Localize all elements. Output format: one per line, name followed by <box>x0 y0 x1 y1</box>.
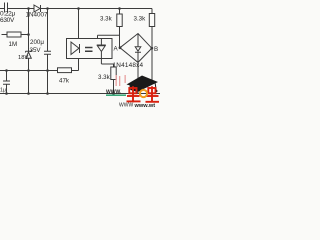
svg-text:3.3k: 3.3k <box>134 16 147 23</box>
svg-text:35V: 35V <box>30 47 42 54</box>
svg-text:WWW: WWW <box>119 103 133 109</box>
svg-text:3.3k: 3.3k <box>98 74 111 81</box>
svg-text:630V: 630V <box>0 17 15 24</box>
svg-text:3.3k: 3.3k <box>100 16 113 23</box>
svg-text:1N4148x4: 1N4148x4 <box>113 62 144 69</box>
svg-text:www.wt: www.wt <box>134 103 156 109</box>
svg-text:1μ: 1μ <box>0 88 6 94</box>
svg-text:1N4007: 1N4007 <box>26 12 49 19</box>
svg-text:18V: 18V <box>18 55 28 61</box>
svg-text:1M: 1M <box>9 41 18 48</box>
svg-text:B: B <box>154 46 158 53</box>
svg-text:47k: 47k <box>59 78 70 85</box>
svg-text:200μ: 200μ <box>30 39 44 46</box>
